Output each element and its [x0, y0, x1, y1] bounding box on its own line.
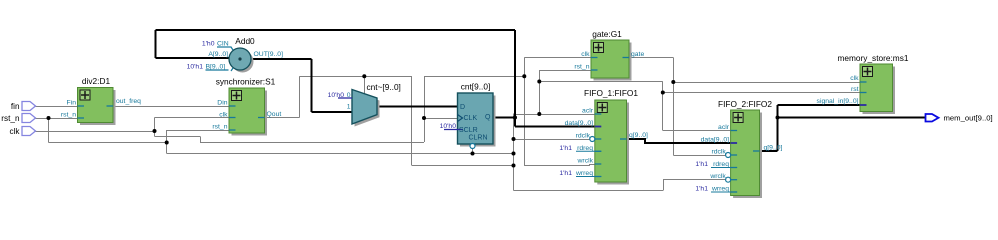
wire net clk: into gate clk [524, 57, 591, 59]
net label gate [631, 51, 644, 58]
wire net rst_n: drop from junction [48, 118, 50, 143]
const label 10'h1 B[9..0] [187, 64, 229, 71]
svg-text:1'h1: 1'h1 [559, 170, 572, 177]
mux cnt~[9..0] [338, 90, 380, 127]
wire net clk: into FIFO_1 wrclk [590, 164, 595, 166]
pin label SCLR [459, 127, 478, 134]
wire net rst_n: drop at memory column [662, 82, 664, 131]
wire net rst_n: horizontal run to sync branch [49, 142, 167, 144]
wire net gate: into FIFO_2 rdclk [673, 155, 725, 157]
svg-text:gate: gate [631, 51, 644, 58]
svg-text:cnt[9..0]: cnt[9..0] [461, 82, 491, 92]
label cnt~[9..0] [367, 82, 401, 92]
junction rst_n at memory channel [537, 80, 541, 84]
bus Add0 OUT: drop to mux input 1 [311, 59, 313, 112]
svg-text:Fin: Fin [67, 100, 77, 107]
pin label sync clk [219, 112, 228, 119]
junction gate at memory clk [671, 80, 675, 84]
svg-text:signal_in[9..0]: signal_in[9..0] [817, 98, 859, 105]
net label A[9..0] [208, 51, 228, 58]
junction FIFO_2 q fanout [776, 116, 780, 120]
wire net rst_n: rise to FIFO_1 aclr level [513, 114, 515, 154]
pin label div2 rst_n [61, 112, 76, 119]
adder Add0 [229, 47, 254, 73]
module FIFO_2:FIFO2 [711, 110, 762, 198]
bus Add0 OUT [251, 58, 312, 60]
pin label memory clk [850, 75, 859, 82]
pin label gate clk [581, 51, 590, 58]
pin label FIFO_1 aclr [582, 107, 594, 114]
svg-text:rdreq: rdreq [713, 161, 729, 168]
svg-text:10'h0: 10'h0 [328, 92, 345, 99]
wire net rst_n: drop to lower channel [166, 143, 168, 154]
wire net Qout: rise to FIFO_1 rdclk [513, 139, 515, 166]
svg-text:gate:G1: gate:G1 [592, 29, 622, 39]
wire net clk: rise past cnt CLK to top channel [424, 76, 426, 142]
svg-text:rst_n: rst_n [1, 114, 20, 123]
junction rst_n at FIFO_1 aclr rise [512, 152, 516, 156]
wire net clk: rise to gate clk [524, 58, 526, 77]
pin label FIFO_1 data [565, 120, 593, 127]
const 1'h1 FIFO_2 wrreq [695, 185, 708, 192]
wire net out_freq: div2 out_freq to synchronizer Din [113, 106, 229, 108]
bus cnt Q output [493, 117, 515, 119]
wire net gate: into memory_store clk [673, 82, 860, 84]
svg-text:rdclk: rdclk [576, 133, 591, 140]
label cnt[9..0] [461, 82, 491, 92]
pin label CLK [464, 115, 478, 122]
wire net Qout: into FIFO_2 wrclk [663, 179, 726, 181]
const 1'h1 FIFO_1 rdreq [559, 145, 572, 152]
svg-text:out_freq: out_freq [116, 98, 141, 105]
mux select 1 [347, 104, 351, 111]
junction rst_n at sync branch [165, 141, 169, 145]
wire cnt CLRN to rst_n channel [472, 147, 474, 154]
const label 10'h0 mux [328, 92, 345, 99]
wire net clk: run to FIFO_1 wrclk [524, 165, 589, 167]
wire net rst_n: into synchronizer rst_n [167, 130, 229, 132]
bus feedback loop: cnt Q up to top [514, 30, 516, 118]
svg-text:rst: rst [851, 86, 859, 93]
module div2:D1 [78, 88, 116, 126]
module synchronizer:S1 [229, 88, 267, 136]
svg-text:D: D [460, 104, 465, 111]
junction rst_n at div2 branch [47, 116, 51, 120]
svg-text:SCLR: SCLR [459, 127, 478, 134]
junction Qout at mux select [362, 74, 366, 78]
svg-text:rst_n: rst_n [61, 112, 76, 119]
svg-text:wrclk: wrclk [709, 173, 726, 180]
pin label FIFO_2 rdreq [713, 161, 729, 168]
bus Add0 OUT: into mux input 1 [312, 111, 353, 113]
svg-text:1'h0: 1'h0 [202, 41, 215, 48]
junction clk at sync branch [153, 129, 157, 133]
wire net rst_n: port to div2 rst_n [36, 118, 78, 120]
bus FIFO_2 q: into memory signal_in [778, 104, 861, 106]
label FIFO_1:FIFO1 [584, 88, 638, 98]
svg-text:clk: clk [9, 127, 20, 136]
svg-text:OUT[9..0]: OUT[9..0] [254, 51, 284, 58]
net label OUT[9..0] [254, 51, 284, 58]
pin label signal_in [817, 98, 859, 105]
wire net Qout: drop under FIFO_1 [513, 166, 515, 191]
mux select 0 [347, 92, 351, 99]
output port mem_out[9..0] [926, 114, 993, 123]
svg-text:rst_n: rst_n [212, 124, 227, 131]
net label FIFO_1 q[9..0] [629, 132, 648, 139]
svg-text:clk: clk [850, 75, 859, 82]
wire net clk: drop to FIFO_1 wrclk [524, 76, 526, 166]
svg-text:rdclk: rdclk [711, 148, 726, 155]
wire net Qout: top channel [300, 76, 412, 78]
svg-text:aclr: aclr [582, 107, 594, 114]
pin label gate rst_n [574, 64, 589, 71]
svg-text:0: 0 [347, 92, 351, 99]
label FIFO_2:FIFO2 [718, 99, 772, 109]
junction Qout at FIFO_1 rdclk rise [512, 137, 516, 141]
module memory_store:ms1 [860, 64, 895, 114]
wire net gate: drop at column [673, 58, 675, 156]
wire net clk: into synchronizer clk [155, 117, 230, 119]
wire net rst_n: into memory_store rst [663, 92, 860, 94]
pin bubble cnt CLRN [470, 144, 475, 149]
svg-text:wrreq: wrreq [575, 170, 593, 177]
pin label FIFO_2 data [701, 136, 729, 143]
net label FIFO_2 q[9..0] [764, 145, 783, 152]
svg-text:10'h0: 10'h0 [440, 123, 457, 130]
pin label memory rst [851, 86, 859, 93]
bus cnt Q: into FIFO_1 data [515, 126, 595, 128]
svg-text:div2:D1: div2:D1 [82, 76, 111, 86]
label synchronizer:S1 [216, 77, 276, 87]
junction rst_n at cnt CLRN [471, 152, 475, 156]
wire net clk: jog up into wrclk [589, 164, 591, 166]
pin label Fin [67, 100, 77, 107]
wire net rst_n: into gate rst_n [539, 70, 591, 72]
pin label CLRN [468, 135, 487, 142]
wire net Qout: drop to mux select [364, 76, 366, 93]
input port clk [9, 127, 35, 137]
bus FIFO_2 q output [760, 150, 778, 152]
wire net rst_n: into FIFO_1 aclr [514, 114, 595, 116]
wire net clk: top channel [424, 76, 524, 78]
svg-text:fin: fin [11, 102, 20, 111]
wire net clk: long channel to cnt [200, 142, 424, 144]
svg-text:FIFO_1:FIFO1: FIFO_1:FIFO1 [584, 88, 638, 98]
wire net Qout: from synchronizer Qout [265, 117, 300, 119]
wire net rst_n: long channel to cnt CLRN and FIFO region [167, 153, 514, 155]
const 1'h1 FIFO_1 wrreq [559, 170, 572, 177]
svg-text:data[9..0]: data[9..0] [565, 120, 593, 127]
wire net clk: jog down 2 [200, 136, 202, 142]
svg-text:1'h1: 1'h1 [695, 185, 708, 192]
pin bubble FIFO_1 rdclk [590, 137, 595, 142]
svg-text:rst_n: rst_n [574, 64, 589, 71]
svg-text:FIFO_2:FIFO2: FIFO_2:FIFO2 [718, 99, 772, 109]
svg-text:Add0: Add0 [235, 36, 255, 46]
register cnt[9..0] [444, 93, 496, 147]
pin label FIFO_2 wrclk [709, 173, 726, 180]
pin label FIFO_1 wrclk [577, 158, 594, 165]
junction clk at cnt CLK [422, 116, 426, 120]
label Add0 [235, 36, 255, 46]
pin label FIFO_2 rdclk [711, 148, 726, 155]
svg-text:Qout: Qout [267, 111, 282, 118]
svg-text:clk: clk [581, 51, 590, 58]
wire net clk: port to junction [36, 131, 155, 133]
svg-text:wrclk: wrclk [577, 158, 594, 165]
svg-text:q[9..0]: q[9..0] [764, 145, 783, 152]
label div2:D1 [82, 76, 111, 86]
svg-text:10'h1: 10'h1 [187, 64, 204, 71]
svg-text:CLK: CLK [464, 115, 478, 122]
wire net Qout: drop to lower channel [411, 76, 413, 165]
wire net Qout: rise to FIFO_2 wrclk [663, 180, 665, 191]
bus FIFO_1 q to FIFO_2 data [627, 139, 731, 143]
pin label FIFO_2 wrreq [711, 185, 729, 192]
svg-text:data[9..0]: data[9..0] [701, 136, 729, 143]
wire net rst_n: channel toward memory rst [539, 81, 663, 83]
pin label Din [217, 100, 227, 107]
net label Qout [267, 111, 282, 118]
wire net rst_n: into FIFO_2 aclr [663, 130, 731, 132]
svg-text:cnt~[9..0]: cnt~[9..0] [367, 82, 401, 92]
bus FIFO_2 q: to mem_out port [778, 117, 926, 119]
svg-text:Q: Q [485, 114, 491, 121]
label memory_store:ms1 [837, 53, 908, 63]
wire net clk: into cnt CLK [424, 118, 458, 120]
wire net Qout: channel under FIFO_1 [514, 190, 664, 192]
svg-text:memory_store:ms1: memory_store:ms1 [837, 53, 908, 63]
const 1'h1 FIFO_2 rdreq [695, 161, 708, 168]
wire net Qout: into FIFO_1 rdclk [514, 139, 593, 141]
pin label FIFO_1 wrreq [575, 170, 593, 177]
wire net clk: rise to synchronizer clk [154, 118, 156, 132]
pin label FIFO_1 rdreq [577, 145, 593, 152]
junction rst_n at memory rst [661, 91, 665, 95]
svg-text:1: 1 [347, 104, 351, 111]
const label 10'h0 SCLR [440, 123, 457, 130]
svg-text:A[9..0]: A[9..0] [208, 51, 228, 58]
label gate:G1 [592, 29, 622, 39]
input port rst_n [1, 114, 35, 124]
svg-text:clk: clk [219, 112, 228, 119]
wire net rst_n: rise to gate rst_n [539, 70, 541, 114]
junction rst_n at gate rise [537, 112, 541, 116]
bus feedback loop: into Add0 A [156, 57, 230, 59]
svg-text:Din: Din [217, 100, 227, 107]
wire net clk: jog run [155, 136, 201, 138]
pin bubble FIFO_2 rdclk [726, 153, 731, 158]
module FIFO_1:FIFO1 [576, 100, 629, 185]
svg-text:mem_out[9..0]: mem_out[9..0] [944, 114, 993, 123]
pin label D [460, 104, 465, 111]
bus feedback loop: top run [156, 29, 516, 31]
svg-text:rdreq: rdreq [577, 145, 593, 152]
svg-text:q[9..0]: q[9..0] [629, 132, 648, 139]
wire net fin: port fin to div2 Fin [36, 106, 78, 108]
svg-text:CLRN: CLRN [468, 135, 487, 142]
input port fin [11, 102, 36, 112]
svg-text:synchronizer:S1: synchronizer:S1 [216, 77, 276, 87]
wire net Qout: rise to top channel [299, 76, 301, 117]
net label out_freq [116, 98, 141, 105]
wire net gate: from gate output [629, 57, 673, 59]
svg-text:wrreq: wrreq [711, 185, 729, 192]
svg-text:aclr: aclr [718, 124, 730, 131]
junction cnt Q fanout [513, 116, 517, 120]
svg-text:1'h1: 1'h1 [695, 161, 708, 168]
module gate:G1 [591, 40, 632, 81]
pin bubble FIFO_2 wrclk [726, 177, 731, 182]
pin label Q [485, 114, 491, 121]
svg-text:1'h1: 1'h1 [559, 145, 572, 152]
bus feedback loop: down to adder A [155, 30, 157, 58]
pin label sync rst_n [212, 124, 227, 131]
pin label FIFO_1 rdclk [576, 133, 591, 140]
const label 1'h0 CIN [202, 41, 232, 48]
junction Qout at under-channel drop [512, 164, 516, 168]
bus cnt Q: drop to FIFO_1 data [514, 118, 516, 127]
wire net Qout: channel under cnt [412, 165, 514, 167]
pin label FIFO_2 aclr [718, 124, 730, 131]
bus mux output to cnt D [377, 106, 458, 108]
bus FIFO_2 q: rise [777, 105, 779, 151]
wire net clk: jog down below junction [154, 131, 156, 136]
wire net rst_n: rise to synchronizer rst_n [166, 130, 168, 143]
junction clk at gate branch [522, 74, 526, 78]
